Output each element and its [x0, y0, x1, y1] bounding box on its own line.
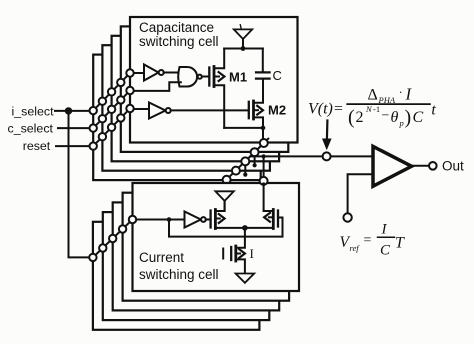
- junction on select wire: [167, 217, 172, 222]
- svg-text:p: p: [399, 118, 404, 128]
- transistor M1: [209, 49, 224, 128]
- node Vref (open circle): [343, 213, 351, 221]
- wire c_select diagonal: [93, 91, 130, 129]
- input tap nodes of 5 current cells: [89, 216, 136, 261]
- svg-text:I: I: [405, 85, 413, 104]
- label Out: [442, 159, 464, 174]
- wire reset: [56, 145, 93, 147]
- transistor M2: [249, 79, 263, 128]
- wire inv1 to nand: [164, 72, 181, 74]
- wire VDD stem (current cell): [224, 201, 226, 211]
- comparator U1: [373, 146, 412, 186]
- svg-text:c_select: c_select: [8, 122, 54, 136]
- svg-text:Out: Out: [442, 159, 464, 174]
- label Capacitance switching cell: [139, 20, 219, 49]
- transistor Q3 current source: [223, 228, 245, 274]
- current cell stacked boxes: [93, 183, 299, 330]
- capacitance cell stacked boxes: [93, 17, 297, 180]
- junction on i_select: [65, 107, 72, 114]
- wire VDD stem: [242, 39, 244, 49]
- svg-text:V(t)=: V(t)=: [308, 101, 344, 118]
- wire: cell output to box edge: [262, 128, 264, 139]
- node V(t) (open circle): [323, 152, 331, 160]
- wire: comparator output: [412, 165, 429, 167]
- ground symbol: [236, 274, 255, 283]
- wire i_select: [55, 110, 93, 112]
- svg-text:C: C: [273, 68, 282, 83]
- junction: current stack tap on bus: [262, 154, 266, 158]
- svg-text:2: 2: [356, 109, 364, 126]
- svg-text:I: I: [381, 222, 388, 238]
- wire nand lower input L: [134, 82, 181, 91]
- svg-text:−: −: [382, 109, 390, 124]
- label reset: [23, 139, 51, 153]
- wire stub + junction (cell 3 output): [244, 165, 246, 174]
- wire: diagonal joining cap cell outputs: [223, 139, 269, 184]
- wire: node to comparator input: [331, 155, 373, 157]
- svg-text:i_select: i_select: [12, 105, 55, 119]
- inverter INV2: [149, 103, 171, 119]
- label I (current value): [250, 246, 254, 261]
- svg-text:switching cell: switching cell: [139, 267, 219, 282]
- svg-text:switching cell: switching cell: [139, 34, 219, 49]
- wire: Vref input to comparator: [348, 174, 373, 213]
- transistor Q2 (right, current cell, mirrored): [264, 210, 278, 229]
- junction M2 drain: [261, 126, 266, 131]
- tick above VDD symbol: [240, 25, 241, 29]
- svg-text:Capacitance: Capacitance: [139, 20, 214, 35]
- label M2: [268, 103, 286, 118]
- svg-text:Current: Current: [139, 250, 184, 265]
- svg-text:ref: ref: [350, 243, 361, 253]
- svg-text:t: t: [431, 102, 436, 119]
- wire inv2 to M2 gate: [171, 109, 248, 111]
- svg-text:N: N: [365, 104, 373, 114]
- nand gate G1: [178, 67, 202, 87]
- svg-text:·: ·: [399, 85, 403, 100]
- wire i_select diagonal: [93, 73, 130, 111]
- input tap nodes (3 signals x 5 cells): [90, 69, 134, 150]
- wire: dot to Q2 gate: [169, 218, 283, 237]
- wire reset diagonal: [93, 109, 130, 147]
- wire nand out to M1 gate: [203, 76, 210, 78]
- label equation Vref: [340, 222, 406, 259]
- wire: i_select drop to current stack: [69, 111, 93, 258]
- transistor Q1 (left, current cell): [211, 201, 225, 229]
- wire VDD rail: [224, 48, 263, 50]
- label equation V(t): [308, 85, 436, 129]
- svg-text:): ): [405, 107, 412, 129]
- wire: select input to inverter: [136, 219, 184, 221]
- svg-text:-1: -1: [373, 104, 380, 114]
- wire c_select: [58, 127, 93, 129]
- wire inv1 input: [134, 72, 144, 74]
- svg-text:C: C: [380, 243, 391, 259]
- power symbol VDD (capacitance cell): [234, 29, 252, 39]
- junction: common node: [242, 225, 248, 231]
- inverter INV3: [185, 212, 206, 228]
- svg-text:reset: reset: [23, 139, 51, 153]
- capacitor C: [262, 49, 264, 73]
- output node of current cell (top edge circle): [260, 177, 268, 185]
- wire current stack output up to bus: [263, 156, 265, 177]
- inverter INV1: [144, 65, 164, 81]
- power symbol VDD (current cell): [215, 191, 233, 201]
- svg-text:M2: M2: [268, 103, 286, 118]
- arrow: V(t) equation points to node: [326, 121, 329, 141]
- node Out (open circle): [429, 162, 437, 170]
- svg-text:(: (: [348, 107, 355, 129]
- wire: common rail between Q1 and Q2: [215, 227, 273, 229]
- input tap node on current cell edge: [129, 216, 136, 223]
- wire: summing bus to comparator: [251, 155, 323, 157]
- label c_select: [8, 122, 54, 136]
- wire: bottom rail inside cap cell: [224, 127, 263, 129]
- wire: current cell output down to Q2: [263, 185, 265, 211]
- wire: i_select diagonal (current stack): [93, 220, 133, 258]
- label C: [273, 68, 282, 83]
- label i_select: [12, 105, 55, 119]
- wire stub + junction (cell 2 output): [254, 156, 256, 165]
- svg-text:C: C: [413, 109, 424, 126]
- label M1: [229, 70, 247, 85]
- svg-text:θ: θ: [391, 109, 399, 126]
- output nodes of 5 capacitance cells: [223, 139, 268, 184]
- junction on VDD rail: [241, 46, 246, 51]
- svg-text:Δ: Δ: [368, 87, 378, 104]
- svg-text:=: =: [364, 233, 372, 248]
- svg-text:T: T: [395, 235, 405, 252]
- svg-text:I: I: [250, 246, 254, 261]
- svg-text:M1: M1: [229, 70, 247, 85]
